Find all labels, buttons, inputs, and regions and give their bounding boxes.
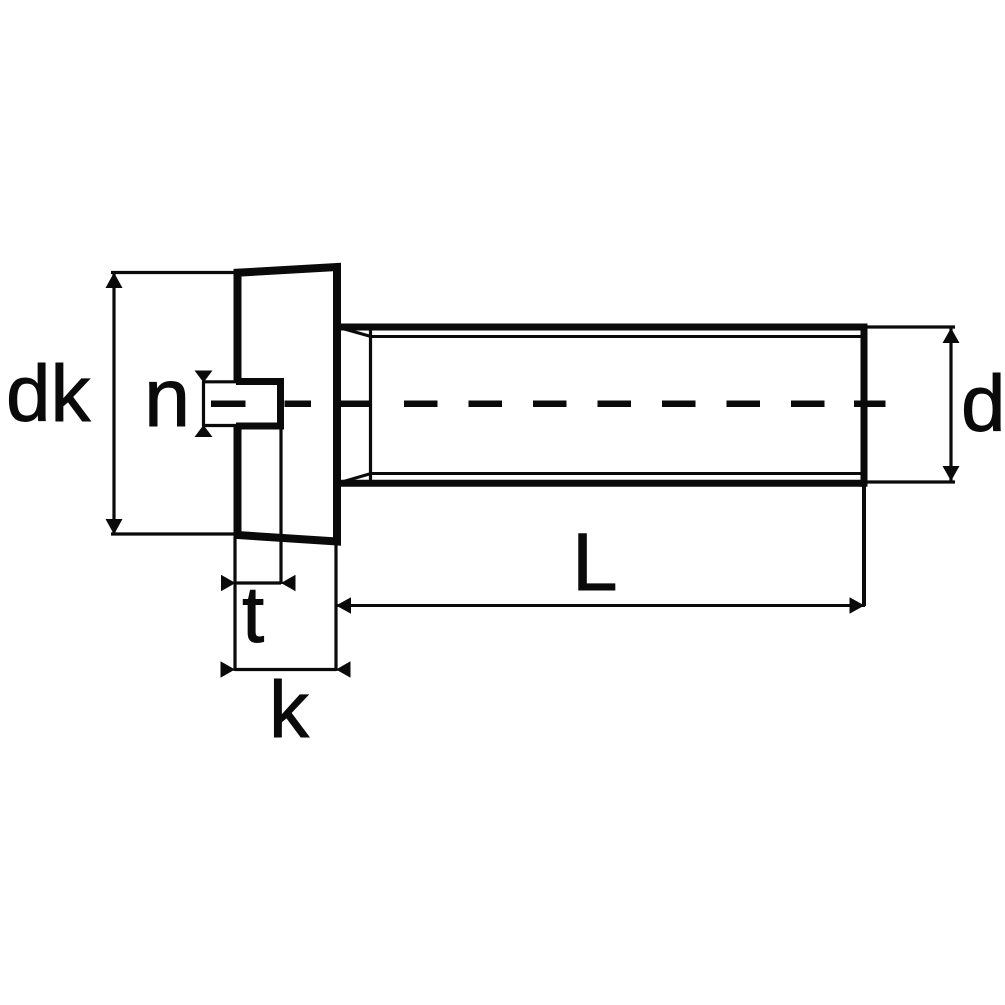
- dk dimension extension line top: [111, 271, 239, 274]
- thread minor diameter top line: [371, 335, 865, 338]
- centerline dash 10: [791, 400, 825, 407]
- L arrow right (pointing right): [850, 597, 865, 613]
- centerline dash 8: [662, 400, 696, 407]
- centerline dash 6: [533, 400, 567, 407]
- k arrow right (outside, pointing left): [336, 661, 351, 677]
- t arrow right (outside, pointing left): [281, 575, 296, 591]
- svg-text:t: t: [242, 570, 264, 659]
- centerline dash 4: [404, 400, 438, 407]
- shank outer top line (major diameter): [335, 324, 864, 331]
- thread run-out vertical line: [369, 327, 372, 483]
- thread chamfer diagonal top: [339, 328, 371, 337]
- centerline dash 9: [727, 400, 761, 407]
- n dimension extension line top: [202, 380, 237, 383]
- centerline dash 3: [340, 400, 371, 407]
- head slot (slot width n, depth t): [236, 382, 281, 427]
- centerline dash 7: [598, 400, 632, 407]
- n arrow bottom (outside, pointing up): [195, 425, 213, 437]
- svg-text:L: L: [572, 517, 618, 608]
- d extension line bottom: [867, 480, 955, 483]
- t arrow left (outside, pointing right): [221, 575, 236, 591]
- t dimension line: [236, 581, 282, 584]
- L arrow left (pointing left): [336, 597, 351, 613]
- shared left extension line (head left face, for t and k): [233, 537, 236, 671]
- centerline dash 2: [285, 400, 312, 407]
- svg-text:k: k: [269, 665, 310, 754]
- L dimension line: [336, 604, 865, 607]
- centerline dash 11 (crosses tip): [854, 400, 886, 407]
- centerline dash 5: [469, 400, 503, 407]
- k dimension line: [235, 668, 336, 671]
- screw tip end line: [861, 324, 868, 487]
- d arrow bottom (pointing down): [943, 466, 960, 481]
- thread minor diameter bottom line: [371, 472, 865, 475]
- dk dimension line: [112, 274, 115, 533]
- d extension line top: [867, 325, 955, 328]
- t extension line right (from slot bottom): [279, 428, 282, 584]
- n dimension line (vertical, between arrows): [202, 382, 205, 426]
- dk arrow bottom: [106, 519, 123, 535]
- n dimension extension line bottom: [202, 424, 237, 427]
- L right extension line (from screw tip): [862, 484, 866, 606]
- shank outer bottom line (major diameter): [335, 480, 864, 487]
- n arrow top (outside, pointing down): [195, 371, 213, 383]
- svg-text:dk: dk: [6, 349, 91, 438]
- k arrow left (outside, pointing right): [221, 661, 236, 677]
- dk dimension extension line bottom: [111, 532, 239, 535]
- k right extension line (under head right face): [334, 545, 337, 671]
- svg-text:d: d: [961, 359, 1005, 448]
- centerline dash 1 (in slot): [211, 400, 246, 407]
- svg-text:n: n: [144, 351, 190, 444]
- thread chamfer diagonal bottom: [339, 474, 371, 483]
- d arrow top (pointing up): [943, 328, 960, 343]
- d dimension line: [949, 328, 952, 481]
- screw head outline: [238, 267, 338, 542]
- dk arrow top: [106, 273, 123, 289]
